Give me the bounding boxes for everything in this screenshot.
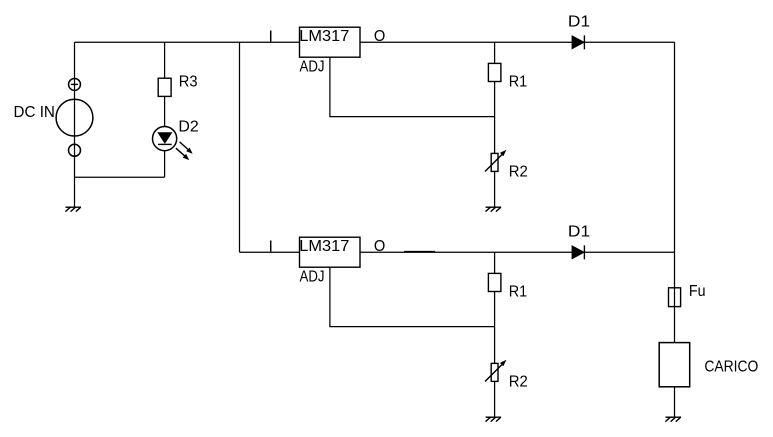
- regulator U2 LM317 (stage 2): [299, 237, 360, 285]
- resistor R3: [158, 73, 198, 96]
- fuse Fu: [669, 283, 706, 307]
- resistor R1 (stage 2): [488, 273, 527, 300]
- wire source vertical: [74, 42, 76, 207]
- ground (stage 2, below R2): [486, 417, 502, 421]
- svg-text:R1: R1: [509, 73, 528, 90]
- wire stage2 input: [240, 251, 300, 253]
- voltage source DC IN: [14, 78, 93, 156]
- LED D2: [153, 118, 199, 160]
- svg-text:ADJ: ADJ: [300, 58, 325, 75]
- wire stage1 output: [360, 41, 675, 43]
- svg-text:I: I: [269, 28, 273, 45]
- svg-text:I: I: [269, 238, 273, 255]
- wire R1 branch (stage 2): [494, 252, 496, 417]
- wire top bus: [75, 41, 300, 43]
- svg-text:D1: D1: [568, 13, 590, 30]
- svg-text:LM317: LM317: [299, 28, 349, 45]
- svg-text:D1: D1: [568, 223, 590, 240]
- wire ADJ feedback (stage 2): [330, 267, 495, 326]
- svg-text:R2: R2: [509, 373, 528, 390]
- regulator U1 LM317 (stage 1): [299, 27, 360, 75]
- wire stage2 output: [360, 251, 675, 253]
- svg-text:DC IN: DC IN: [14, 104, 55, 121]
- svg-text:R1: R1: [509, 283, 528, 300]
- potentiometer R2 (stage 1): [485, 150, 528, 181]
- wire stage2 drop: [239, 42, 241, 252]
- svg-text:ADJ: ADJ: [300, 268, 325, 285]
- wire bottom left: [75, 176, 165, 178]
- ground (left, below source): [65, 207, 81, 211]
- svg-text:R2: R2: [509, 163, 528, 180]
- svg-text:R3: R3: [179, 73, 198, 90]
- wire ADJ feedback (stage 1): [330, 57, 495, 116]
- wire fuse branch: [674, 252, 676, 342]
- potentiometer R2 (stage 2): [485, 360, 528, 391]
- load CARICO: [659, 343, 758, 387]
- diode D1 (stage 1): [568, 13, 590, 49]
- wire load to ground: [674, 387, 676, 417]
- svg-text:LM317: LM317: [299, 238, 349, 255]
- svg-text:D2: D2: [178, 118, 198, 135]
- wire overlap segment: [404, 250, 435, 252]
- wire R1 branch (stage 1): [494, 42, 496, 207]
- ground (below CARICO): [665, 417, 681, 421]
- resistor R1 (stage 1): [488, 63, 527, 90]
- ground (stage 1, below R2): [486, 207, 502, 211]
- svg-text:Fu: Fu: [689, 283, 706, 300]
- wire right vertical: [674, 42, 676, 252]
- diode D1 (stage 2): [568, 223, 590, 259]
- wire R3 branch: [164, 42, 166, 177]
- svg-text:CARICO: CARICO: [704, 358, 758, 375]
